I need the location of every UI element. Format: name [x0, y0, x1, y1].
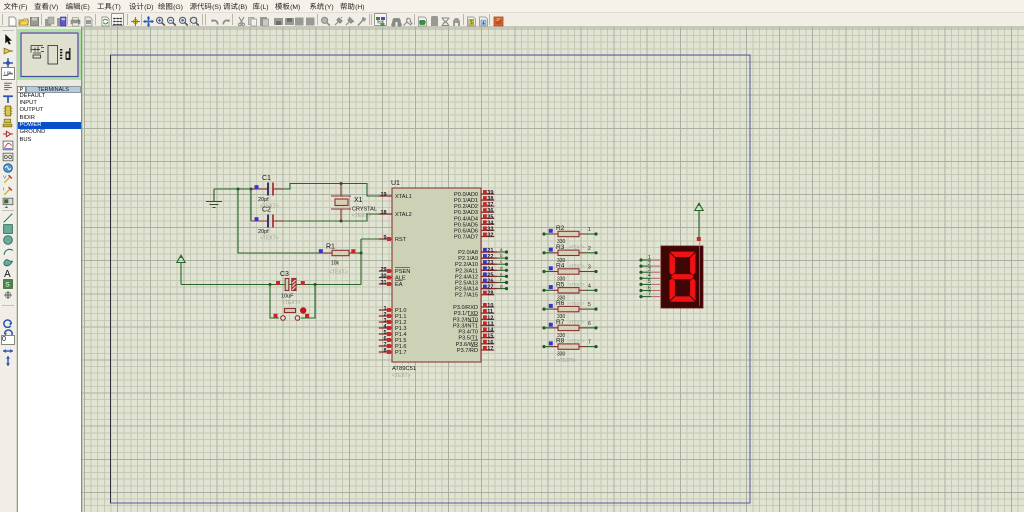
pin 34 P0.5/AD5 [454, 220, 494, 228]
display pin 7 [639, 291, 661, 298]
svg-text:6: 6 [588, 321, 591, 327]
svg-text:27: 27 [487, 285, 493, 291]
svg-text:(S): (S) [212, 4, 221, 11]
capacitor C3 (electrolytic) [276, 271, 305, 306]
svg-text:P2.0/A8: P2.0/A8 [458, 250, 478, 256]
svg-text:22: 22 [487, 254, 493, 260]
svg-text:(V): (V) [49, 4, 58, 11]
svg-text:12: 12 [487, 315, 493, 321]
svg-text:<TEXT>: <TEXT> [569, 263, 585, 268]
svg-text:32: 32 [487, 233, 493, 239]
svg-text:(T): (T) [112, 4, 121, 11]
pin 11 P3.1/TXD [454, 309, 494, 317]
sheet border [111, 55, 751, 503]
svg-text:2: 2 [588, 246, 591, 252]
svg-text:P3.0/RXD: P3.0/RXD [453, 305, 478, 311]
junction R1 right [360, 252, 363, 255]
svg-text:39: 39 [487, 190, 493, 196]
svg-text:R1: R1 [326, 244, 335, 251]
svg-text:f: f [500, 278, 502, 283]
svg-text:3: 3 [648, 267, 651, 273]
resistor R5 [542, 281, 597, 306]
svg-text:23: 23 [487, 260, 493, 266]
svg-text:<TEXT>: <TEXT> [569, 301, 585, 306]
svg-text:R7: R7 [556, 319, 565, 326]
svg-text:P3.2/INT0: P3.2/INT0 [453, 317, 478, 323]
svg-text:R3: R3 [556, 244, 565, 251]
display pin 4 [639, 273, 661, 280]
svg-text:R2: R2 [556, 225, 565, 232]
capacitor C2 [251, 207, 284, 242]
svg-text:28: 28 [487, 291, 493, 297]
pin 32 P0.7/AD7 [454, 233, 494, 241]
svg-text:<TEXT>: <TEXT> [569, 245, 585, 250]
svg-text:X1: X1 [354, 197, 363, 204]
junction C3 left [269, 283, 272, 286]
svg-text:C2: C2 [262, 207, 271, 214]
svg-text:<TEXT>: <TEXT> [569, 338, 585, 343]
pin 22 P2.1/A9 [458, 253, 508, 262]
pin 26 P2.5/A13 [455, 278, 508, 287]
pin 8 P1.7 [379, 348, 407, 356]
svg-text:P2.2/A10: P2.2/A10 [455, 262, 478, 268]
display pin 5 [639, 279, 661, 286]
svg-text:P2.4/A12: P2.4/A12 [455, 274, 478, 280]
svg-text:P3.5/T1: P3.5/T1 [458, 336, 478, 342]
svg-text:P1.7: P1.7 [395, 350, 407, 356]
pin 13 P3.3/INT1 [453, 321, 494, 329]
svg-text:19: 19 [380, 192, 386, 198]
svg-text:R8: R8 [556, 338, 565, 345]
resistor R7 [542, 319, 597, 344]
svg-text:2: 2 [648, 261, 651, 267]
resistor R3 [542, 244, 597, 268]
svg-text:15: 15 [487, 334, 493, 340]
svg-text:<TEXT>: <TEXT> [569, 320, 585, 325]
wire down to C2 [250, 189, 252, 221]
pin 14 P3.4/T0 [458, 328, 494, 336]
pin 36 P0.3/AD3 [454, 208, 494, 216]
pin 39 P0.0/AD0 [454, 190, 494, 198]
svg-text:P2.6/A14: P2.6/A14 [455, 287, 478, 293]
svg-text:37: 37 [487, 202, 493, 208]
pin 31 EA [379, 280, 403, 288]
display pin 3 [639, 267, 661, 274]
display anode pin state square [697, 237, 701, 241]
svg-text:R5: R5 [556, 281, 565, 288]
crystal X1 [331, 184, 377, 222]
svg-text:11: 11 [487, 309, 493, 315]
svg-text:P3.3/INT1: P3.3/INT1 [453, 323, 478, 329]
svg-text:16: 16 [487, 340, 493, 346]
pin 21 P2.0/A8 [458, 247, 508, 256]
svg-text:7: 7 [648, 291, 651, 297]
wire C1 to XTAL1 [283, 184, 381, 197]
pin 33 P0.6/AD6 [454, 226, 494, 234]
svg-text:<TEXT>: <TEXT> [352, 213, 371, 219]
svg-text:a: a [500, 247, 503, 252]
svg-text:R6: R6 [556, 300, 565, 307]
svg-text:<TEXT>: <TEXT> [260, 236, 279, 242]
svg-text:20pf: 20pf [258, 197, 269, 203]
svg-text:P0.3/AD3: P0.3/AD3 [454, 210, 478, 216]
svg-text:C1: C1 [262, 175, 271, 182]
svg-text:20pf: 20pf [258, 229, 269, 235]
svg-text:LBL: LBL [4, 70, 13, 76]
svg-text:330: 330 [557, 352, 566, 358]
display pin 1 [639, 255, 661, 262]
svg-text:18: 18 [380, 210, 386, 216]
pin 29 PSEN [379, 267, 410, 275]
svg-text:3: 3 [588, 265, 591, 271]
svg-text:6: 6 [648, 285, 651, 291]
svg-text:CRYSTAL: CRYSTAL [352, 207, 377, 213]
wire VCC to C3 row [181, 284, 361, 286]
svg-text:34: 34 [487, 220, 494, 226]
pin 23 P2.2/A10 [455, 259, 508, 268]
svg-text:(D): (D) [144, 4, 153, 11]
svg-text:d: d [500, 265, 503, 270]
svg-text:P3.7/RD: P3.7/RD [457, 348, 478, 354]
pin 35 P0.4/AD4 [454, 214, 494, 222]
svg-text:<TEXT>: <TEXT> [392, 373, 411, 379]
svg-text:P0.0/AD0: P0.0/AD0 [454, 192, 478, 198]
svg-text:(L): (L) [260, 4, 268, 11]
pin 27 P2.6/A14 [455, 284, 508, 293]
svg-text:13: 13 [487, 321, 493, 327]
svg-text:4: 4 [648, 273, 651, 279]
svg-text:P0.6/AD6: P0.6/AD6 [454, 228, 478, 234]
ground [206, 189, 222, 208]
pin 37 P0.2/AD2 [454, 202, 494, 210]
display pin 6 [639, 285, 661, 292]
mcu U1 AT89C51 [391, 180, 481, 379]
resistor R2 [542, 225, 597, 250]
svg-text:21: 21 [487, 248, 493, 254]
svg-text:e: e [500, 271, 503, 276]
svg-text:b: b [500, 253, 503, 258]
pin 18 XTAL2 [379, 210, 412, 218]
svg-text:7: 7 [588, 340, 591, 346]
svg-text:PSEN: PSEN [395, 269, 410, 275]
svg-text:$: $ [470, 20, 473, 26]
pin 24 P2.3/A11 [455, 265, 508, 274]
svg-text:<TEXT>: <TEXT> [282, 300, 301, 306]
svg-text:(F): (F) [19, 4, 28, 11]
svg-text:P3.1/TXD: P3.1/TXD [454, 311, 478, 317]
svg-text:P2.7/A15: P2.7/A15 [455, 293, 478, 299]
power terminal VCC left [177, 255, 185, 284]
svg-text:P2.1/A9: P2.1/A9 [458, 256, 478, 262]
svg-text:8: 8 [384, 348, 387, 354]
wire button loop right [301, 285, 315, 319]
pin 28 P2.7/A15 [455, 291, 494, 299]
display pin 2 [639, 261, 661, 268]
svg-text:(B): (B) [238, 4, 247, 11]
svg-text:31: 31 [380, 280, 386, 286]
svg-text:36: 36 [487, 208, 493, 214]
pin 38 P0.1/AD1 [454, 196, 494, 204]
pin 7 P1.6 [379, 342, 407, 350]
svg-text:(G): (G) [173, 4, 183, 11]
svg-text:(Y): (Y) [325, 4, 334, 11]
svg-text:17: 17 [487, 346, 493, 352]
svg-text:10: 10 [487, 303, 493, 309]
svg-text:(E): (E) [81, 4, 90, 11]
svg-text:P0.5/AD5: P0.5/AD5 [454, 222, 478, 228]
junction crystal top [340, 182, 343, 185]
pin 9 RST [379, 235, 407, 243]
pin 10 P3.0/RXD [453, 303, 494, 311]
svg-text:9: 9 [384, 235, 387, 241]
svg-text:30: 30 [380, 274, 386, 280]
svg-text:4: 4 [588, 283, 591, 289]
pin 15 P3.5/T1 [458, 334, 494, 342]
pin 16 P3.6/WR [456, 340, 495, 348]
pin 17 P3.7/RD [457, 346, 494, 354]
junction C3 right [314, 283, 317, 286]
power terminal VCC display [695, 203, 703, 237]
pin 1 P1.0 [379, 306, 407, 314]
svg-text:5: 5 [588, 302, 591, 308]
pin 12 P3.2/INT0 [453, 315, 494, 323]
svg-text:c: c [500, 259, 503, 264]
pin 3 P1.2 [379, 318, 407, 326]
wire R1 to RST and C3 net [357, 239, 381, 285]
svg-text:XTAL1: XTAL1 [395, 194, 412, 200]
svg-text:25: 25 [487, 272, 493, 278]
pin 6 P1.5 [379, 336, 407, 344]
pin 25 P2.4/A12 [455, 271, 508, 280]
pin 19 XTAL1 [379, 192, 412, 200]
svg-text:5: 5 [648, 279, 651, 285]
svg-text:C3: C3 [280, 271, 289, 278]
wire down to R1 row [238, 189, 322, 253]
svg-text:P3.6/WR: P3.6/WR [456, 342, 478, 348]
resistor R1 [319, 244, 357, 276]
svg-text:10uF: 10uF [281, 294, 294, 300]
svg-text:V: V [3, 174, 7, 180]
svg-text:XTAL2: XTAL2 [395, 212, 412, 218]
resistor R6 [542, 300, 597, 325]
svg-text:(H): (H) [355, 4, 364, 11]
resistor R4 [542, 263, 597, 288]
junction crystal bottom [340, 220, 343, 223]
svg-text:29: 29 [380, 267, 386, 273]
svg-text:<TEXT>: <TEXT> [569, 282, 585, 287]
svg-text:EA: EA [395, 282, 403, 288]
svg-text:P3.4/T0: P3.4/T0 [458, 330, 478, 336]
wire C2 to XTAL2 [283, 214, 381, 221]
svg-text:P2.3/A11: P2.3/A11 [455, 268, 478, 274]
svg-text:14: 14 [487, 328, 494, 334]
pin 30 ALE [379, 274, 406, 282]
pin 2 P1.1 [379, 312, 407, 320]
junction C2 branch x251 [250, 188, 253, 191]
svg-text:RST: RST [395, 237, 407, 243]
pin 5 P1.4 [379, 330, 407, 338]
junction at ground wire x238 [237, 188, 240, 191]
svg-text:P0.2/AD2: P0.2/AD2 [454, 204, 478, 210]
svg-text:I: I [3, 186, 4, 192]
push button [274, 307, 310, 320]
svg-text:1: 1 [588, 227, 591, 233]
wire ground-to-C1 [214, 188, 252, 190]
svg-text:<TEXT>: <TEXT> [329, 270, 348, 276]
pin 4 P1.3 [379, 324, 407, 332]
resistor R8 [542, 338, 597, 365]
wire button loop left [270, 285, 279, 319]
svg-text:26: 26 [487, 279, 493, 285]
svg-text:P2.5/A13: P2.5/A13 [455, 281, 478, 287]
svg-text:P0.7/AD7: P0.7/AD7 [454, 235, 478, 241]
svg-text:(M): (M) [290, 4, 300, 11]
capacitor C1 [252, 175, 284, 210]
svg-text:<TEXT>: <TEXT> [557, 358, 576, 364]
svg-text:U1: U1 [391, 180, 400, 187]
svg-text:g: g [500, 284, 503, 289]
svg-text:10k: 10k [331, 261, 340, 267]
svg-text:R4: R4 [556, 263, 565, 270]
svg-text:33: 33 [487, 226, 493, 232]
svg-text:AT89C51: AT89C51 [392, 366, 416, 372]
svg-text:24: 24 [487, 266, 494, 272]
svg-text:1: 1 [648, 255, 651, 261]
7-segment display [661, 242, 703, 309]
